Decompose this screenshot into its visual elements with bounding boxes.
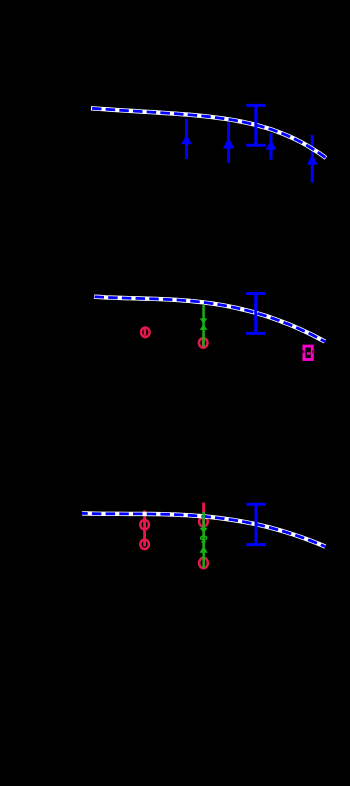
model curve 3: white solid bbox=[82, 513, 326, 546]
blue error bar 2 bbox=[246, 294, 265, 334]
blue lower-limit arrow 3 bbox=[266, 133, 277, 159]
blue lower-limit arrow 1 bbox=[181, 119, 192, 159]
red open circle marker (left upper) bbox=[140, 520, 149, 530]
red data point 1: open circle marker bbox=[141, 328, 150, 338]
blue lower-limit arrow 4 bbox=[307, 135, 318, 183]
magenta open square marker bbox=[304, 346, 312, 359]
red data point 1: small error bar bbox=[144, 329, 147, 336]
blue error bar 1 bbox=[246, 105, 265, 145]
dark notches on square edges bbox=[302, 350, 304, 353]
blue error bar 3 bbox=[246, 504, 265, 544]
green upper-limit arrow chain (down) bbox=[200, 512, 208, 568]
green upper-limit arrow (down) bbox=[200, 305, 208, 347]
red error bar (middle, above curve) bbox=[202, 503, 205, 527]
blue lower-limit arrow 2 bbox=[223, 122, 234, 163]
model curve 1: white solid bbox=[91, 108, 326, 158]
model curve 1: blue dashed overlay bbox=[91, 108, 326, 158]
red data point 2: open circle marker bbox=[199, 338, 208, 348]
red open circle marker (bottom) bbox=[199, 558, 208, 569]
model curve 3: blue dashed overlay bbox=[82, 513, 326, 546]
green open circle marker bbox=[201, 536, 207, 540]
magenta horizontal error bar (central dash) bbox=[307, 352, 311, 354]
model curve 2: white solid bbox=[94, 297, 325, 342]
model curve 2: blue dashed overlay bbox=[94, 297, 325, 342]
red open circle marker (middle, under curve) bbox=[199, 517, 208, 527]
red data point 2: small error bar bbox=[202, 340, 205, 347]
red error bar (left pair) bbox=[143, 511, 146, 547]
red open circle marker (left lower) bbox=[140, 540, 149, 550]
